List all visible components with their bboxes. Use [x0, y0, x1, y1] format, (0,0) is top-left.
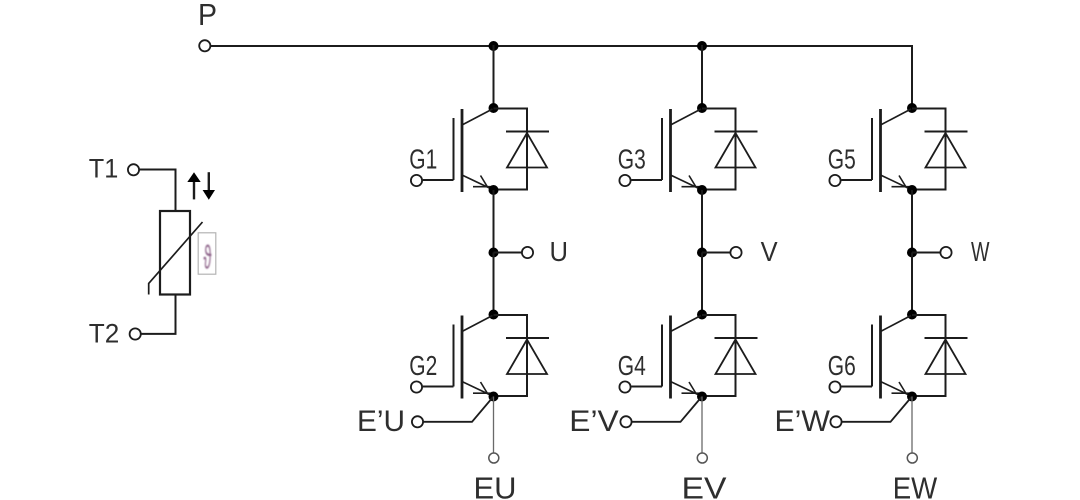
- svg-text:P: P: [198, 0, 217, 32]
- IGBT Q5 (gate G5): [841, 109, 912, 192]
- node E'W auxiliary emitter terminal: [830, 416, 841, 427]
- node G6 gate terminal: [829, 381, 840, 392]
- node W terminal: [940, 247, 951, 258]
- junction dot node W: [907, 248, 917, 258]
- wire T1 to thermistor: [139, 170, 175, 213]
- temperature box: [198, 233, 216, 274]
- wire node V to Q4 collector: [701, 253, 703, 315]
- svg-text:G3: G3: [618, 144, 646, 175]
- node G4 gate terminal: [619, 381, 630, 392]
- junction dot Q1 emitter: [489, 185, 499, 195]
- node E'U auxiliary emitter terminal: [412, 416, 423, 427]
- svg-text:U: U: [550, 236, 569, 267]
- svg-text:E’U: E’U: [357, 405, 405, 438]
- wire Q1 emitter to node U: [493, 190, 495, 253]
- wire Q4 emitter to EV terminal: [701, 397, 703, 453]
- junction dot rail / leg V: [697, 41, 707, 51]
- diode D3 (antiparallel): [702, 109, 758, 190]
- arrow up (resistance change): [187, 172, 200, 199]
- junction dot node U: [489, 248, 499, 258]
- IGBT Q6 (gate G6): [841, 316, 912, 399]
- node G1 gate terminal: [411, 175, 422, 186]
- wire node U to Q2 collector: [493, 253, 495, 315]
- junction dot Q1 collector: [489, 103, 499, 113]
- svg-text:G2: G2: [409, 350, 437, 381]
- wire thermistor to T2: [141, 294, 176, 334]
- svg-text:G6: G6: [828, 350, 856, 381]
- junction dot Q5 collector: [907, 103, 917, 113]
- wire E'W to Q6 emitter: [842, 397, 912, 422]
- diode D4 (antiparallel): [702, 315, 758, 396]
- junction dot Q5 emitter: [907, 185, 917, 195]
- wire rail to Q5 collector: [911, 45, 913, 108]
- node EV terminal: [697, 453, 707, 463]
- svg-text:T1: T1: [89, 153, 119, 183]
- junction dot Q4 collector: [697, 310, 707, 320]
- wire Q5 emitter to node W: [911, 190, 913, 253]
- svg-text:EU: EU: [474, 470, 517, 500]
- svg-text:E’W: E’W: [775, 405, 831, 438]
- node EW terminal: [907, 453, 917, 463]
- node G3 gate terminal: [619, 175, 630, 186]
- junction dot Q3 collector: [697, 103, 707, 113]
- node E'V auxiliary emitter terminal: [620, 416, 631, 427]
- svg-text:V: V: [761, 236, 778, 267]
- svg-text:G5: G5: [828, 144, 856, 175]
- wire Q2 emitter to EU terminal: [493, 397, 495, 453]
- wire node U to terminal: [494, 252, 523, 254]
- svg-text:ϑ: ϑ: [204, 239, 212, 276]
- IGBT Q1 (gate G1): [423, 109, 494, 192]
- junction dot Q3 emitter: [697, 185, 707, 195]
- junction dot Q4 emitter: [697, 392, 707, 402]
- junction dot Q6 emitter: [907, 392, 917, 402]
- wire rail to Q3 collector: [701, 45, 703, 108]
- thermistor R1 (NTC) body: [160, 211, 190, 295]
- wire node W to terminal: [912, 252, 941, 254]
- wire E'U to Q2 emitter: [423, 397, 493, 422]
- IGBT Q2 (gate G2): [423, 316, 494, 399]
- wire node V to terminal: [702, 252, 731, 254]
- node T1 terminal: [128, 164, 139, 175]
- svg-text:G4: G4: [618, 350, 646, 381]
- thermistor R1 diagonal stroke: [149, 222, 203, 295]
- svg-text:EV: EV: [682, 470, 727, 500]
- diode D5 (antiparallel): [912, 109, 968, 190]
- wire Q3 emitter to node V: [701, 190, 703, 253]
- wire Q6 emitter to EW terminal: [911, 397, 913, 453]
- node EU terminal: [489, 453, 499, 463]
- node G5 gate terminal: [829, 175, 840, 186]
- node P terminal: [199, 40, 210, 51]
- node T2 terminal: [130, 328, 141, 339]
- svg-text:EW: EW: [893, 470, 938, 500]
- svg-text:G1: G1: [409, 144, 437, 175]
- IGBT Q3 (gate G3): [631, 109, 702, 192]
- svg-text:E’V: E’V: [569, 405, 619, 438]
- junction dot Q2 emitter: [489, 392, 499, 402]
- node G2 gate terminal: [411, 381, 422, 392]
- node U terminal: [522, 247, 533, 258]
- wire rail to Q1 collector: [493, 45, 495, 108]
- wire node W to Q6 collector: [911, 253, 913, 315]
- diode D6 (antiparallel): [912, 315, 968, 396]
- junction dot node V: [697, 248, 707, 258]
- svg-text:W: W: [971, 236, 990, 267]
- diode D2 (antiparallel): [494, 315, 550, 396]
- arrow down (resistance change): [203, 172, 215, 200]
- wire P+ rail: [211, 45, 912, 47]
- node V terminal: [730, 247, 741, 258]
- svg-text:T2: T2: [89, 318, 120, 348]
- wire E'V to Q4 emitter: [632, 397, 702, 422]
- junction dot Q2 collector: [489, 310, 499, 320]
- junction dot rail / leg U: [489, 41, 499, 51]
- diode D1 (antiparallel): [494, 109, 550, 190]
- IGBT Q4 (gate G4): [631, 316, 702, 399]
- junction dot Q6 collector: [907, 310, 917, 320]
